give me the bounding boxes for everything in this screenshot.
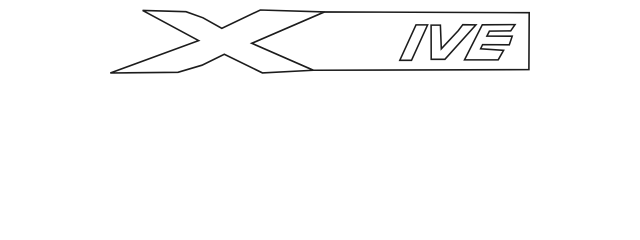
band <box>252 12 530 70</box>
letter V <box>431 25 476 60</box>
X swoosh <box>110 10 324 73</box>
letter E <box>465 25 516 60</box>
letter I <box>400 25 428 60</box>
